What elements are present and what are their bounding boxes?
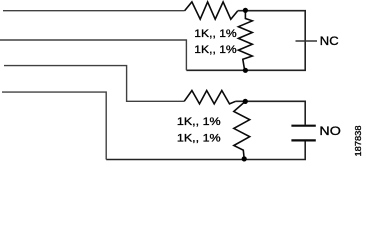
svg-text:187838: 187838: [354, 125, 363, 157]
svg-text:NC: NC: [320, 34, 339, 48]
svg-text:NO: NO: [319, 124, 340, 138]
svg-text:1K,, 1%: 1K,, 1%: [177, 132, 221, 144]
svg-text:1K,, 1%: 1K,, 1%: [194, 28, 237, 40]
svg-text:1K,, 1%: 1K,, 1%: [177, 116, 221, 128]
svg-text:1K,, 1%: 1K,, 1%: [194, 44, 237, 56]
